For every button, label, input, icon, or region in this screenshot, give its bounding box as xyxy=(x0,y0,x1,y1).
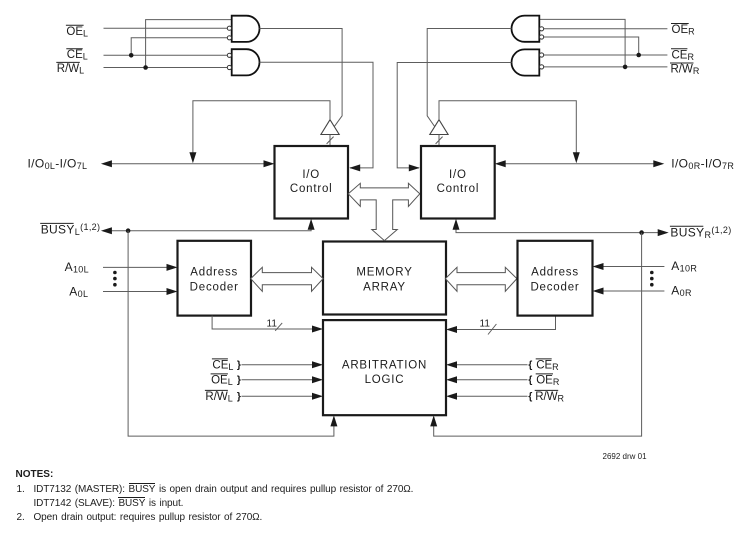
svg-text:ARRAY: ARRAY xyxy=(363,281,406,293)
arrow 11-bit bus left into arbitration xyxy=(312,326,323,333)
gate G2 input bubbles xyxy=(227,53,231,69)
svg-text:CEL: CEL xyxy=(67,49,88,62)
wire R/WR to gate G4 xyxy=(544,66,667,68)
wire OER to arbitration xyxy=(453,379,528,381)
bus slash right 11 xyxy=(488,324,496,335)
bus slash left 11 xyxy=(275,323,282,331)
svg-text:MEMORY: MEMORY xyxy=(356,267,412,279)
arrow OER into arbitration xyxy=(446,376,457,383)
arrow A0R into decoder xyxy=(593,288,604,295)
net CER label xyxy=(671,49,694,62)
AND gate G4 (right write enable) xyxy=(512,49,540,75)
wire CEL to arbitration xyxy=(242,364,317,366)
svg-text:R/WL: R/WL xyxy=(57,63,84,76)
net BUSYL label xyxy=(40,222,100,237)
wire CER to gate G4 xyxy=(544,54,667,56)
svg-text:OEL: OEL xyxy=(211,374,233,387)
ellipsis right address xyxy=(650,271,654,287)
wire R/WL tap to gate G1 xyxy=(146,20,232,68)
svg-text:{: { xyxy=(528,359,532,371)
arrow I/O bus into left I/O Control xyxy=(264,160,275,167)
wire 11-bit bus left decoder to arbitration xyxy=(212,316,316,329)
arrow RWL into arbitration xyxy=(312,393,323,400)
net R/WR label xyxy=(670,63,700,76)
bus slash under buffer B2 xyxy=(436,137,443,144)
arrow I/O bus right outer xyxy=(653,160,664,167)
svg-text:Decoder: Decoder xyxy=(190,281,239,293)
svg-text:Control: Control xyxy=(290,183,333,195)
svg-text:Address: Address xyxy=(531,266,579,278)
drawing number label xyxy=(603,452,647,461)
arrow buffer B2 output down xyxy=(573,152,580,163)
wire A0L xyxy=(103,291,169,293)
AND gate G3 (right OE enable) xyxy=(512,16,540,42)
svg-text:R/WL: R/WL xyxy=(205,391,232,404)
bus arrow I/O Controls and memory (T shape) xyxy=(348,183,420,240)
arrow into left I/O Control right edge xyxy=(349,164,360,171)
svg-text:Control: Control xyxy=(437,183,480,195)
svg-text:LOGIC: LOGIC xyxy=(365,374,405,386)
notes heading xyxy=(16,469,54,480)
wire BUSYR xyxy=(456,221,660,233)
wire BUSYL xyxy=(103,221,311,231)
svg-text:CER: CER xyxy=(536,359,559,372)
svg-text:Address: Address xyxy=(190,266,238,278)
wire buffer B2 output to I/O bus xyxy=(439,101,576,156)
arrow BUSYR into right I/O Control bottom xyxy=(453,219,460,230)
wire CEL to gate G2 xyxy=(104,54,228,56)
wire A10R xyxy=(601,266,664,268)
svg-text:CEL: CEL xyxy=(212,359,233,372)
svg-text:CER: CER xyxy=(672,49,695,62)
arrow A10L into decoder xyxy=(167,264,178,271)
net CER arbitration label xyxy=(536,359,559,372)
junction on R/WR xyxy=(623,65,628,70)
block Memory Array xyxy=(323,242,446,315)
wire R/WR tap to gate G3 xyxy=(539,19,625,67)
arrow BUSYR outer xyxy=(658,229,669,236)
svg-text:OER: OER xyxy=(536,374,560,387)
arrow OEL into arbitration xyxy=(312,376,323,383)
block left Address Decoder xyxy=(178,241,252,316)
AND gate G2 (left write enable) xyxy=(232,49,260,75)
net OER arbitration label xyxy=(536,374,560,387)
AND gate G1 (left OE enable) xyxy=(232,16,260,42)
svg-text:I/O: I/O xyxy=(302,169,320,181)
bus slash under buffer B1 xyxy=(327,137,334,144)
net R/WL label xyxy=(56,62,84,75)
svg-text:A10R: A10R xyxy=(671,259,697,274)
svg-text:A0R: A0R xyxy=(671,283,692,298)
junction BUSYR rail xyxy=(639,230,644,235)
ellipsis left address xyxy=(113,271,117,287)
net OEL label xyxy=(66,25,88,38)
junction on CEL xyxy=(129,53,134,58)
svg-text:BUSYL(1,2): BUSYL(1,2) xyxy=(41,222,101,237)
svg-text:OEL: OEL xyxy=(66,26,88,39)
svg-text:I/O0L-I/O7L: I/O0L-I/O7L xyxy=(28,156,88,171)
arrow BUSYL into left I/O Control bottom xyxy=(308,219,315,230)
svg-text:{: { xyxy=(528,390,532,402)
svg-text:{: { xyxy=(528,374,532,386)
arrow BUSYL outer xyxy=(101,227,112,234)
wire CER tap to gate G3 xyxy=(544,37,639,55)
note 1 number xyxy=(17,484,25,495)
gate G4 input bubbles xyxy=(540,53,544,69)
svg-text:BUSYR(1,2): BUSYR(1,2) xyxy=(670,225,731,240)
wire OEL to arbitration xyxy=(242,379,317,381)
wire OEL to gate G1 xyxy=(104,27,228,29)
svg-text:I/O: I/O xyxy=(449,169,467,181)
wire A0R xyxy=(601,290,664,292)
block Arbitration Logic xyxy=(323,320,446,415)
note 2 number xyxy=(17,512,25,523)
wire OER to gate G3 xyxy=(544,28,667,30)
net BUSYR label xyxy=(670,225,732,240)
arrow left rail into arbitration bottom xyxy=(330,415,337,426)
wire CEL tap to gate G1 xyxy=(131,38,227,56)
svg-text:11: 11 xyxy=(267,318,278,329)
svg-text:R/WR: R/WR xyxy=(535,391,564,404)
svg-text:A0L: A0L xyxy=(69,284,88,299)
tri-state buffer B2 (right) xyxy=(430,120,448,135)
svg-text:A10L: A10L xyxy=(65,260,89,275)
svg-text:Decoder: Decoder xyxy=(530,281,579,293)
junction on CER xyxy=(636,53,641,58)
note 2 xyxy=(34,512,263,523)
wire RWR to arbitration xyxy=(453,395,528,397)
note 1 line 1 xyxy=(34,484,414,495)
wire RWL to arbitration xyxy=(242,395,317,397)
arrow I/O bus into right I/O Control xyxy=(495,160,506,167)
block right I/O Control xyxy=(421,146,495,219)
net OER label xyxy=(671,24,695,37)
wire A10L xyxy=(103,266,169,268)
wire gate G4 output to right I/O Control xyxy=(397,63,511,168)
net RWL arbitration label xyxy=(205,390,233,403)
junction BUSYL rail xyxy=(126,228,131,233)
wire 11-bit bus right decoder to arbitration xyxy=(452,316,556,330)
svg-text:}: } xyxy=(237,374,241,386)
wire buffer B1 input from I/O Control xyxy=(329,135,331,147)
wire buffer B1 output to I/O bus xyxy=(193,101,330,156)
wire gate G1 output to buffer enable xyxy=(260,29,343,127)
gate G3 input bubbles xyxy=(540,27,544,39)
net CEL label xyxy=(66,49,88,62)
svg-text:}: } xyxy=(237,390,241,402)
block left I/O Control xyxy=(275,146,349,219)
wire I/O bus left xyxy=(103,163,272,165)
arrow into right I/O Control left edge xyxy=(409,164,420,171)
svg-text:R/WR: R/WR xyxy=(671,64,700,77)
bus arrow left decoder to memory xyxy=(251,267,323,291)
tri-state buffer B1 (left) xyxy=(321,120,339,135)
arrow A0L into decoder xyxy=(167,288,178,295)
svg-text:OER: OER xyxy=(672,24,696,37)
svg-text:ARBITRATION: ARBITRATION xyxy=(342,359,427,371)
wire R/WL to gate G2 xyxy=(104,67,228,69)
net CEL arbitration label xyxy=(212,359,234,372)
arrow right rail into arbitration bottom xyxy=(430,415,437,426)
arrow CER into arbitration xyxy=(446,361,457,368)
arrow CEL into arbitration xyxy=(312,361,323,368)
bus arrow memory to right decoder xyxy=(445,267,517,291)
block right Address Decoder xyxy=(518,241,593,316)
wire buffer B2 input from I/O Control xyxy=(438,135,440,147)
net OEL arbitration label xyxy=(211,374,233,387)
wire I/O bus right xyxy=(497,163,662,165)
gate G1 input bubbles xyxy=(227,26,231,40)
junction on R/WL xyxy=(143,65,148,70)
arrow I/O bus left outer xyxy=(101,160,112,167)
note 1 line 2 xyxy=(34,498,184,509)
wire right busy rail to arbitration xyxy=(434,233,642,437)
arrow RWR into arbitration xyxy=(446,393,457,400)
svg-text:I/O0R-I/O7R: I/O0R-I/O7R xyxy=(671,156,734,171)
arrow buffer B1 output down xyxy=(189,152,196,163)
wire gate G2 output to left I/O Control xyxy=(260,62,374,168)
wire left busy rail to arbitration xyxy=(128,231,334,436)
svg-text:11: 11 xyxy=(480,319,491,330)
svg-text:}: } xyxy=(237,359,241,371)
wire gate G3 output to buffer enable xyxy=(427,29,511,127)
arrow 11-bit bus right into arbitration xyxy=(446,326,457,333)
arrow A10R into decoder xyxy=(593,263,604,270)
net RWR arbitration label xyxy=(535,390,565,403)
wire CER to arbitration xyxy=(453,364,528,366)
